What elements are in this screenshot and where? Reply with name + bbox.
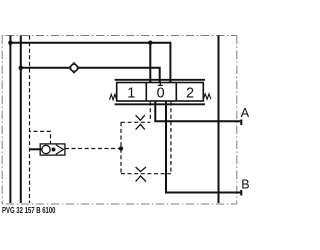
- svg-text:2: 2: [186, 85, 194, 101]
- svg-text:0: 0: [157, 85, 165, 101]
- svg-text:A: A: [241, 106, 250, 120]
- svg-text:PVG 32 157 B 6100: PVG 32 157 B 6100: [2, 206, 56, 215]
- svg-text:B: B: [241, 177, 249, 191]
- svg-text:1: 1: [127, 85, 135, 101]
